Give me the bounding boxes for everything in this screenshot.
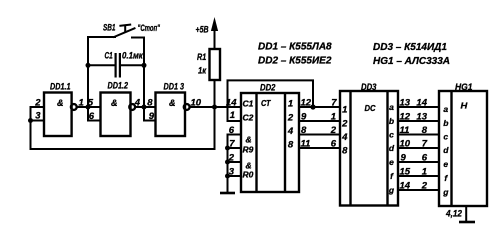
capacitor C1 xyxy=(116,53,120,78)
svg-text:c: c xyxy=(389,130,394,140)
svg-text:&: & xyxy=(57,98,64,108)
svg-text:R9: R9 xyxy=(243,145,254,155)
svg-text:2: 2 xyxy=(341,119,348,130)
svg-text:С1: С1 xyxy=(243,99,254,109)
svg-text:4,12: 4,12 xyxy=(445,208,462,219)
svg-text:2: 2 xyxy=(287,112,294,123)
wire pin 3 stub xyxy=(31,120,45,122)
wire DD3 pin 9 to HG1 pin 6 xyxy=(398,161,439,163)
svg-text:d: d xyxy=(389,143,395,153)
svg-text:9: 9 xyxy=(149,111,155,122)
svg-text:a: a xyxy=(443,104,448,114)
decoder DD3 body xyxy=(340,91,398,206)
junction node A at pin 5 xyxy=(86,105,91,110)
svg-text:10: 10 xyxy=(400,138,411,149)
svg-text:R0: R0 xyxy=(243,170,254,180)
svg-text:+5В: +5В xyxy=(196,24,209,34)
wire node A to C1 xyxy=(88,64,115,66)
svg-text:&: & xyxy=(169,98,176,108)
wire DD2 pin 11 to DD3 pin 6 xyxy=(299,147,340,149)
gate DD1.2 xyxy=(101,93,136,137)
wire DD2 pin 3 stub xyxy=(228,175,242,177)
resistor R1 xyxy=(210,49,221,80)
wire DD2 reset pins to ground xyxy=(227,135,229,193)
wire pin 2 stub xyxy=(31,106,45,108)
svg-text:1к: 1к xyxy=(198,65,207,75)
svg-text:DD3 – К514ИД1: DD3 – К514ИД1 xyxy=(373,42,447,53)
svg-text:С1: С1 xyxy=(105,51,113,61)
svg-text:СТ: СТ xyxy=(261,98,271,108)
svg-text:1: 1 xyxy=(422,166,427,177)
wire node A vertical xyxy=(87,37,89,121)
wire C1 to node B xyxy=(121,64,144,66)
wire DD2 pin 6 stub xyxy=(228,134,242,136)
svg-text:11: 11 xyxy=(400,125,410,136)
svg-text:DD1.1: DD1.1 xyxy=(50,81,71,91)
indicator HG1 body xyxy=(439,91,487,206)
wire DD3 pin 10 to HG1 pin 7 xyxy=(398,147,439,149)
svg-text:9: 9 xyxy=(301,111,307,122)
wire DD1.1 input tie vertical xyxy=(30,107,32,149)
svg-text:6: 6 xyxy=(331,138,337,149)
svg-text:12: 12 xyxy=(301,97,312,108)
wire pin 6 stub xyxy=(88,120,101,122)
svg-text:R1: R1 xyxy=(197,52,206,62)
svg-text:HG1 – АЛС333А: HG1 – АЛС333А xyxy=(373,56,450,67)
wire DD1.3 output to DD2 pin 14 xyxy=(191,106,241,108)
svg-text:e: e xyxy=(443,159,448,169)
wire DD2 pin 9 to DD3 pin 1 xyxy=(299,120,340,122)
svg-text:Н: Н xyxy=(461,101,469,111)
svg-text:11: 11 xyxy=(301,138,311,149)
power +5V arrow xyxy=(211,17,218,31)
svg-text:2: 2 xyxy=(421,180,428,191)
svg-text:DC: DC xyxy=(365,103,377,113)
wire DD2 pin 8 to DD3 pin 2 xyxy=(299,134,340,136)
svg-text:13: 13 xyxy=(400,97,411,108)
svg-text:0.1мк: 0.1мк xyxy=(122,51,143,61)
svg-text:2: 2 xyxy=(330,125,337,136)
svg-text:9: 9 xyxy=(401,152,407,163)
junction C1 left at node A xyxy=(86,63,91,68)
junction pin 2 xyxy=(225,160,230,165)
svg-text:8: 8 xyxy=(422,125,428,136)
wire +5V to R1 xyxy=(214,28,216,49)
junction pin 3 xyxy=(225,174,230,179)
svg-text:&: & xyxy=(246,135,252,145)
svg-text:6: 6 xyxy=(422,152,428,163)
svg-text:"Стоп": "Стоп" xyxy=(138,23,161,33)
wire DD3 pin 14 to HG1 pin 2 xyxy=(398,189,439,191)
junction node B at pin 8 xyxy=(142,105,147,110)
wire DD2 pin 2 stub xyxy=(228,161,242,163)
svg-text:SB1: SB1 xyxy=(103,23,116,33)
svg-text:4: 4 xyxy=(341,132,348,143)
svg-text:DD1 – К555ЛА8: DD1 – К555ЛА8 xyxy=(258,41,332,52)
counter DD2 body xyxy=(241,93,299,192)
wire DD1.1 output to DD1.2 pin 5 xyxy=(78,106,101,108)
wire DD3 pin 13 to HG1 pin 14 xyxy=(398,106,439,108)
svg-text:15: 15 xyxy=(400,166,411,177)
svg-text:7: 7 xyxy=(331,97,337,108)
svg-text:DD1.2: DD1.2 xyxy=(108,80,129,90)
svg-text:1: 1 xyxy=(342,105,347,116)
svg-text:5: 5 xyxy=(88,97,94,108)
junction C1 right at node B xyxy=(142,63,147,68)
junction pin 12 xyxy=(310,104,315,109)
svg-text:8: 8 xyxy=(147,97,153,108)
svg-text:b: b xyxy=(389,116,394,126)
wire R1 to node C xyxy=(214,80,216,107)
wire DD2 pin 12 to DD3 pin 7 xyxy=(299,106,340,108)
svg-text:6: 6 xyxy=(89,111,95,122)
wire feedback node C to DD1.1 inputs xyxy=(31,107,215,149)
svg-text:13: 13 xyxy=(416,111,427,122)
svg-text:12: 12 xyxy=(400,111,411,122)
ground left xyxy=(220,192,235,195)
svg-text:1: 1 xyxy=(331,111,336,122)
svg-text:DD2 – К555ИЕ2: DD2 – К555ИЕ2 xyxy=(258,55,332,66)
junction node C at R1 bottom xyxy=(212,105,217,110)
svg-text:С2: С2 xyxy=(243,113,254,123)
svg-text:1: 1 xyxy=(288,98,293,109)
svg-text:g: g xyxy=(442,187,449,197)
wire node A to SB1 left contact xyxy=(88,36,115,38)
wire DD1.2 output to DD1.3 pin 8 xyxy=(136,106,155,108)
svg-text:14: 14 xyxy=(400,180,411,191)
svg-text:b: b xyxy=(443,118,448,128)
svg-text:DD2: DD2 xyxy=(260,82,276,92)
svg-text:4: 4 xyxy=(287,126,294,137)
wire DD3 pin 12 to HG1 pin 13 xyxy=(398,120,439,122)
svg-text:d: d xyxy=(443,145,449,155)
ground right xyxy=(459,221,475,224)
wire DD2 pin 7 stub xyxy=(228,147,242,149)
wire DD2 pin 1 stub xyxy=(228,120,242,122)
wire HG1 common cathode to ground xyxy=(465,206,467,222)
junction pin 3 xyxy=(28,118,33,123)
svg-text:c: c xyxy=(443,132,448,142)
svg-text:e: e xyxy=(389,157,394,167)
svg-text:8: 8 xyxy=(288,139,294,150)
gate DD1.3 xyxy=(156,93,190,137)
svg-text:g: g xyxy=(388,185,395,195)
svg-text:8: 8 xyxy=(301,125,307,136)
svg-text:14: 14 xyxy=(226,97,237,108)
wire DD3 pin 15 to HG1 pin 1 xyxy=(398,175,439,177)
wire DD3 pin 11 to HG1 pin 8 xyxy=(398,134,439,136)
svg-text:DD1 3: DD1 3 xyxy=(164,81,185,91)
svg-text:a: a xyxy=(389,102,394,112)
gate DD1.1 xyxy=(44,93,77,137)
wire pin 9 stub xyxy=(144,120,156,122)
svg-text:8: 8 xyxy=(342,146,348,157)
svg-text:7: 7 xyxy=(422,138,428,149)
svg-text:&: & xyxy=(111,98,118,108)
wire DD2 pin 12 to pin 1 rail xyxy=(228,80,314,121)
svg-text:14: 14 xyxy=(416,97,427,108)
switch SB1 pushbutton xyxy=(114,25,135,37)
wire SB1 right contact to node B xyxy=(132,38,144,121)
svg-text:1: 1 xyxy=(230,110,235,121)
junction pin 7 xyxy=(225,146,230,151)
